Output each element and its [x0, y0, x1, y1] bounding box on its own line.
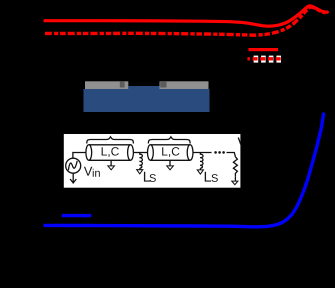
device: right electrode dark segment	[160, 81, 166, 87]
red solid curve (transmission S21)	[45, 6, 327, 26]
transmission line TL2 (cylinder)	[150, 145, 190, 161]
device cross-section: blue substrate	[84, 89, 210, 112]
device: left gray electrode	[85, 81, 128, 89]
brace over TL2	[148, 137, 190, 144]
ground below TL1	[110, 161, 112, 166]
termination zigzag inductor	[233, 157, 237, 177]
circuit inset white panel	[64, 134, 241, 188]
wire: source to TL1	[73, 153, 86, 159]
device: left electrode dark segment	[120, 81, 125, 87]
ground below LS1	[139, 168, 141, 170]
legend blue line sample	[62, 214, 91, 217]
device: right gray electrode	[160, 81, 209, 89]
label L,C on TL2	[162, 147, 179, 157]
device: thin blue waveguide layer in electrode gap	[128, 86, 159, 89]
shunt inductor LS1 coil	[139, 153, 142, 169]
ellipsis dots	[214, 151, 225, 154]
ground below source	[70, 173, 76, 183]
voltage source Vin (AC)	[66, 158, 81, 173]
label LS2	[205, 172, 218, 182]
legend red solid line sample	[249, 48, 279, 51]
label LS1	[144, 172, 156, 182]
wire ellipsis to termination	[227, 153, 236, 157]
wire TL2 to ellipsis	[193, 152, 212, 154]
red dashed curve	[45, 7, 326, 35]
legend red dashed line sample with white square markers	[247, 56, 281, 63]
ground below termination	[234, 177, 236, 181]
ground below LS2	[199, 168, 201, 170]
partial brace hint at box edge	[238, 138, 241, 145]
brace over TL1	[87, 137, 134, 144]
wire TL1 to TL2	[133, 152, 147, 154]
shunt inductor LS2 coil	[200, 153, 203, 169]
transmission line TL1 (cylinder)	[89, 145, 131, 161]
label L,C on TL1	[102, 147, 119, 157]
ground below TL2	[169, 161, 171, 166]
source sine symbol	[68, 161, 77, 170]
label Vin	[84, 167, 100, 177]
blue curve (electro-optic response)	[45, 114, 324, 227]
